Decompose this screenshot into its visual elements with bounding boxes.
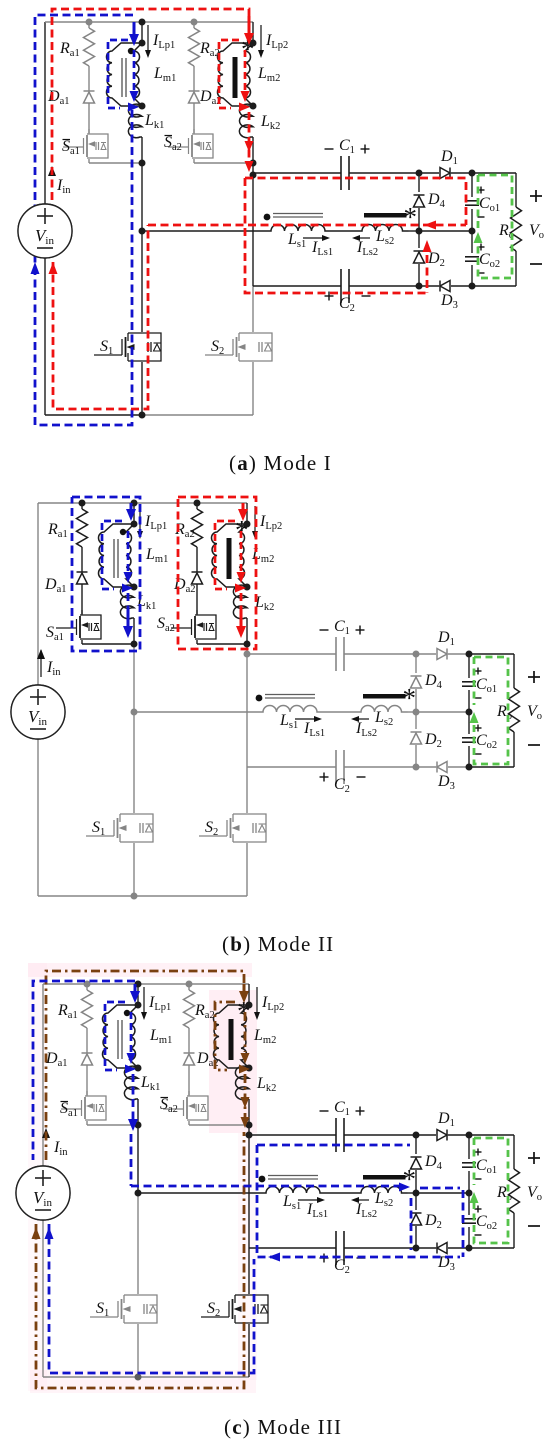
wire top rail (mode a) bbox=[45, 21, 253, 23]
label C_o1 (mode c) bbox=[475, 1151, 482, 1153]
loop red inner winding (mode b) bbox=[215, 521, 235, 589]
node dot (mode c) bbox=[413, 1132, 420, 1139]
inductor L_s1 (mode c) bbox=[260, 1187, 326, 1194]
inductor L_k1 (mode a) bbox=[128, 104, 142, 138]
capacitor C_2 (mode c) bbox=[335, 1231, 337, 1265]
capacitor C_2 (mode b) bbox=[335, 750, 337, 784]
node dot (mode b) bbox=[194, 500, 201, 507]
node dot (mode a) bbox=[469, 283, 476, 290]
node dot (mode a) bbox=[250, 103, 257, 110]
node dot (mode b) bbox=[466, 764, 473, 771]
wire branch2 column (mode b) bbox=[246, 618, 248, 644]
loop red clamp box (mode b) bbox=[178, 497, 256, 649]
node dot (mode c) bbox=[413, 1245, 420, 1252]
capacitor C_o1 (mode a) bbox=[465, 200, 479, 202]
node dot (mode a) bbox=[416, 228, 423, 235]
loop blue outer (mode c) bbox=[33, 981, 135, 1160]
label C_o1 (mode b) bbox=[475, 670, 482, 672]
node dot (mode a) bbox=[139, 228, 146, 235]
inductor L_m2 (mode c) bbox=[213, 1005, 249, 1068]
current I_Ls1 (mode c) bbox=[298, 1199, 320, 1201]
current I_Ls1 (mode a) bbox=[303, 237, 325, 239]
node dot (mode c) bbox=[135, 1190, 142, 1197]
loop blue bottom arrow (mode c) bbox=[268, 1253, 280, 1262]
node dot (mode c) bbox=[135, 1122, 142, 1129]
node dot (mode c) bbox=[135, 1374, 142, 1381]
node dot (mode b) bbox=[413, 651, 420, 658]
node dot (mode a) bbox=[191, 19, 198, 26]
wire C2 rail (mode a) bbox=[253, 285, 341, 287]
wire mid rail (mode a) bbox=[142, 230, 265, 232]
wire branch1 mid (mode b) bbox=[133, 618, 135, 644]
svg-text:(b) Mode II: (b) Mode II bbox=[222, 932, 334, 956]
highlight pink bottom strip (mode c) bbox=[30, 1370, 256, 1393]
label output plus (mode c) bbox=[528, 1157, 540, 1159]
node dot (mode c) bbox=[246, 1122, 253, 1129]
loop blue mid rail (mode c) bbox=[131, 1185, 404, 1188]
node dot (mode b) bbox=[131, 641, 138, 648]
transistor S_a1 (mode a) bbox=[88, 129, 90, 134]
source V_in cover (mode a) bbox=[18, 204, 72, 258]
diode D_1 (mode b) bbox=[437, 649, 447, 660]
wire output column (mode c) bbox=[468, 1135, 470, 1159]
node dot (mode c) bbox=[246, 1132, 253, 1139]
inductor L_s1 (mode a) bbox=[265, 225, 331, 231]
diode D_2 (mode c) bbox=[411, 1214, 422, 1225]
wire top rail (mode c) bbox=[43, 983, 249, 985]
loop green output (mode b) bbox=[474, 657, 508, 764]
transistor S_2 (mode c) bbox=[235, 1294, 249, 1296]
loop blue inner arrows (mode b) bbox=[124, 572, 133, 583]
node dot (mode a) bbox=[139, 40, 146, 47]
node dot (mode b) bbox=[413, 709, 420, 716]
node dot (mode b) bbox=[244, 641, 251, 648]
label C_o2 (mode b) bbox=[475, 727, 482, 729]
diode D_a2 (mode c) bbox=[188, 1028, 190, 1053]
source V_in (mode a) bbox=[18, 204, 72, 258]
loop brown inner winding (mode c) bbox=[215, 1002, 235, 1070]
label S_a1 (mode a) bbox=[63, 139, 71, 141]
wire branch2 column (mode c) bbox=[248, 1099, 250, 1125]
loop brown arrow up left (mode c) bbox=[32, 1227, 41, 1239]
inductor L_m1 (mode a) bbox=[106, 43, 142, 106]
capacitor C_o1 (mode b) bbox=[462, 681, 476, 683]
loop red mid arrow (mode a) bbox=[424, 221, 436, 230]
loop red arrow up left (mode a) bbox=[49, 262, 58, 274]
node dot (mode c) bbox=[246, 1002, 253, 1009]
current I_Ls2 (mode b) bbox=[356, 718, 369, 720]
highlight pink branch2 block (mode c) bbox=[209, 990, 257, 1133]
wire output column (mode b) bbox=[468, 654, 470, 678]
node dot (mode b) bbox=[244, 521, 251, 528]
inductor L_k2 (mode a) bbox=[239, 104, 253, 138]
node dot (mode a) bbox=[469, 228, 476, 235]
resistor R_a1 (mode a) bbox=[88, 22, 90, 28]
resistor R_a1 (mode c) bbox=[86, 984, 88, 990]
inductor L_m1 (mode b) bbox=[98, 524, 134, 587]
transistor S_2 (mode a) bbox=[239, 332, 253, 334]
current I_Lp1 (mode c) bbox=[143, 987, 145, 1014]
inductor L_s2 (mode c) bbox=[355, 1187, 408, 1194]
node dot (mode c) bbox=[135, 1065, 142, 1072]
capacitor C_2 (mode a) bbox=[340, 269, 342, 303]
loop red branch2 down (mode a) bbox=[248, 112, 251, 168]
wire input left vertical (mode b) bbox=[37, 503, 39, 685]
node dot (mode b) bbox=[466, 651, 473, 658]
transistor S_a2 (mode b) bbox=[196, 610, 198, 615]
diode D_4 (mode b) bbox=[411, 677, 422, 688]
current I_in (mode b) bbox=[37, 649, 45, 659]
label C_o2 (mode a) bbox=[478, 246, 485, 248]
label output minus (mode a) bbox=[530, 263, 542, 265]
loop blue inner winding (mode a) bbox=[108, 40, 128, 108]
node dot (mode a) bbox=[139, 160, 146, 167]
loop blue arrow up left (mode c) bbox=[45, 1227, 54, 1239]
wire branch1 mid (mode c) bbox=[137, 1099, 139, 1125]
loop blue enter arrow (mode b) bbox=[130, 503, 133, 512]
loop brown Lk arrows (mode c) bbox=[244, 1074, 247, 1125]
transistor S_a1 (mode b) bbox=[81, 610, 83, 615]
node dot (mode b) bbox=[131, 709, 138, 716]
loop brown outer (mode c) bbox=[46, 971, 244, 1160]
wire diode column (mode b) bbox=[415, 654, 417, 673]
wire output column (mode a) bbox=[471, 173, 473, 197]
node dot (mode c) bbox=[413, 1190, 420, 1197]
wire branch2 drop (mode a) bbox=[252, 22, 254, 43]
loop blue inner arrows (mode a) bbox=[130, 91, 139, 102]
current I_Lp1 (mode a) bbox=[147, 25, 149, 52]
node dot (mode c) bbox=[135, 1002, 142, 1009]
node dot (mode c) bbox=[466, 1132, 473, 1139]
resistor R_a2 (mode a) bbox=[193, 22, 195, 28]
inductor L_k2 (mode c) bbox=[235, 1066, 249, 1100]
transistor S_1 (mode c) bbox=[124, 1294, 138, 1296]
label output plus (mode b) bbox=[528, 676, 540, 678]
wire mid rail (mode c) bbox=[138, 1192, 260, 1194]
loop blue enter arrow (mode a) bbox=[133, 22, 136, 37]
node dot (mode b) bbox=[466, 709, 473, 716]
wire load loop (mode c) bbox=[469, 1134, 514, 1136]
diode D_a1 (mode c) bbox=[86, 1028, 88, 1053]
inductor L_s2 (mode a) bbox=[356, 225, 409, 231]
loop blue inner winding (mode b) bbox=[102, 521, 122, 589]
wire bottom rail (mode a) bbox=[45, 414, 142, 416]
label C_1 (mode a) bbox=[325, 148, 334, 150]
wire C1 rail (mode b) bbox=[247, 653, 336, 655]
node dot (mode c) bbox=[135, 981, 142, 988]
wire bottom rail (mode b) bbox=[38, 895, 134, 897]
wire branch1 drop (mode b) bbox=[133, 503, 135, 524]
diode D_a2 (mode b) bbox=[196, 547, 198, 572]
diode D_4 (mode c) bbox=[411, 1158, 422, 1169]
source V_in (mode c) bbox=[16, 1166, 70, 1220]
wire branch2 drop (mode c) bbox=[248, 984, 250, 1005]
node dot (mode c) bbox=[466, 1190, 473, 1197]
resistor R_o (mode a) bbox=[511, 207, 522, 251]
label S_a2 (mode a) bbox=[165, 135, 173, 137]
loop red secondary box (mode a) bbox=[245, 178, 427, 293]
node dot (mode a) bbox=[139, 19, 146, 26]
loop red inner arrows (mode b) bbox=[237, 572, 246, 583]
diode D_1 (mode a) bbox=[440, 168, 450, 179]
wire bottom rail (mode c) bbox=[43, 1376, 138, 1378]
transistor S_a2 (mode a) bbox=[193, 129, 195, 134]
resistor R_a2 (mode b) bbox=[196, 503, 198, 509]
label S_a2 (mode c) bbox=[161, 1097, 169, 1099]
source V_in cover (mode b) bbox=[11, 685, 65, 739]
diode D_1 (mode c) bbox=[437, 1130, 447, 1141]
loop blue inner winding (mode c) bbox=[105, 1002, 125, 1070]
inductor L_s2 (mode b) bbox=[355, 706, 408, 712]
resistor R_o (mode b) bbox=[509, 688, 520, 732]
loop blue clamp box (mode b) bbox=[72, 497, 140, 651]
source V_in cover (mode c) bbox=[16, 1166, 70, 1220]
current I_Ls2 (mode c) bbox=[356, 1199, 369, 1201]
wire C2 rail (mode b) bbox=[247, 766, 336, 768]
node dot (mode a) bbox=[139, 103, 146, 110]
inductor L_s1 (mode b) bbox=[257, 706, 323, 712]
current I_Ls2 (mode a) bbox=[357, 237, 370, 239]
diode D_2 (mode a) bbox=[414, 252, 425, 263]
loop blue Lk arrow (mode b) bbox=[127, 593, 130, 620]
loop blue enter arrow (mode c) bbox=[134, 984, 137, 994]
current I_Lp1 (mode b) bbox=[139, 506, 141, 533]
svg-text:(c) Mode III: (c) Mode III bbox=[224, 1415, 342, 1439]
label C_1 (mode b) bbox=[320, 629, 329, 631]
label output minus (mode b) bbox=[528, 744, 540, 746]
diode D_3 (mode c) bbox=[437, 1243, 447, 1254]
highlight pink left strip (mode c) bbox=[28, 963, 47, 1391]
wire diode column (mode c) bbox=[415, 1135, 417, 1154]
inductor L_m2 (mode b) bbox=[211, 524, 247, 587]
wire branch1 drop (mode a) bbox=[141, 22, 143, 43]
node dot (mode b) bbox=[131, 584, 138, 591]
wire load loop (mode b) bbox=[469, 653, 514, 655]
loop green output (mode c) bbox=[474, 1138, 508, 1243]
node dot (mode c) bbox=[186, 981, 193, 988]
inductor L_k1 (mode b) bbox=[120, 585, 134, 619]
inductor L_m2 (mode a) bbox=[217, 43, 253, 106]
inductor L_k1 (mode c) bbox=[124, 1066, 138, 1100]
source V_in (mode b) bbox=[11, 685, 65, 739]
diode D_a1 (mode a) bbox=[88, 66, 90, 91]
loop brown inner arrows (mode c) bbox=[241, 1053, 250, 1064]
loop blue Lk descent (mode c) bbox=[132, 1074, 135, 1120]
current I_Lp2 (mode c) bbox=[256, 987, 258, 1014]
loop red enter arrow (mode a) bbox=[248, 16, 251, 33]
node dot (mode a) bbox=[416, 283, 423, 290]
capacitor C_o2 (mode c) bbox=[462, 1218, 476, 1220]
node dot (mode a) bbox=[139, 412, 146, 419]
transistor S_2 (mode b) bbox=[233, 813, 247, 815]
current I_in (mode a) bbox=[48, 166, 56, 176]
inductor L_k2 (mode b) bbox=[233, 585, 247, 619]
node dot (mode b) bbox=[79, 500, 86, 507]
label C_2 (mode a) bbox=[325, 295, 334, 297]
current I_Lp2 (mode a) bbox=[260, 25, 262, 52]
capacitor C_1 (mode b) bbox=[335, 637, 337, 671]
diode D_a2 (mode a) bbox=[193, 66, 195, 91]
svg-text:(a) Mode I: (a) Mode I bbox=[229, 451, 332, 475]
wire load loop (mode a) bbox=[472, 172, 516, 174]
wire input left vertical (mode c) bbox=[42, 984, 44, 1166]
diode D_2 (mode b) bbox=[411, 733, 422, 744]
wire branch1 mid (mode a) bbox=[141, 137, 143, 163]
loop red inner winding (mode a) bbox=[219, 40, 239, 108]
wire diode column (mode a) bbox=[418, 173, 420, 192]
diode D_a1 (mode b) bbox=[81, 547, 83, 572]
loop blue secondary box (mode c) bbox=[257, 1144, 410, 1147]
loop red outer (mode a) bbox=[52, 9, 249, 200]
transistor S_1 (mode a) bbox=[128, 332, 142, 334]
wire C1 rail (mode c) bbox=[249, 1134, 336, 1136]
node dot (mode c) bbox=[84, 981, 91, 988]
capacitor C_o1 (mode c) bbox=[462, 1162, 476, 1164]
loop red Lk arrow (mode b) bbox=[240, 593, 243, 620]
loop red inner arrows (mode a) bbox=[241, 91, 250, 102]
transistor S_1 (mode b) bbox=[120, 813, 134, 815]
diode D_3 (mode a) bbox=[440, 281, 450, 292]
loop green output (mode a) bbox=[478, 175, 512, 278]
capacitor C_o2 (mode a) bbox=[465, 256, 479, 258]
inductor L_m1 (mode c) bbox=[102, 1005, 138, 1068]
wire branch2 column (mode a) bbox=[252, 137, 254, 163]
capacitor C_o2 (mode b) bbox=[462, 737, 476, 739]
resistor R_a2 (mode c) bbox=[188, 984, 190, 990]
node dot (mode a) bbox=[250, 40, 257, 47]
node dot (mode b) bbox=[131, 893, 138, 900]
loop red D2 up (mode a) bbox=[426, 255, 429, 293]
node dot (mode a) bbox=[250, 172, 257, 179]
current I_in (mode c) bbox=[42, 1128, 50, 1138]
wire top rail (mode b) bbox=[38, 502, 247, 504]
label output minus (mode c) bbox=[528, 1225, 540, 1227]
label C_2 (mode b) bbox=[320, 776, 329, 778]
loop blue outer (mode a) bbox=[35, 15, 133, 425]
loop brown enter arrow (mode c) bbox=[243, 984, 246, 994]
highlight pink S2 strip (mode c) bbox=[238, 1133, 257, 1380]
wire branch2 drop (mode b) bbox=[246, 503, 248, 524]
svg-text:*: * bbox=[235, 515, 249, 545]
wire C2 rail (mode c) bbox=[249, 1247, 336, 1249]
current I_Ls1 (mode b) bbox=[295, 718, 317, 720]
node dot (mode b) bbox=[413, 764, 420, 771]
loop blue inner arrows (mode c) bbox=[127, 1053, 136, 1064]
label output plus (mode a) bbox=[530, 195, 542, 197]
label C_o2 (mode c) bbox=[475, 1208, 482, 1210]
node dot (mode b) bbox=[244, 584, 251, 591]
current I_Lp2 (mode b) bbox=[254, 506, 256, 533]
wire branch1 drop (mode c) bbox=[137, 984, 139, 1005]
loop blue arrow up left (mode a) bbox=[31, 262, 40, 274]
capacitor C_1 (mode c) bbox=[335, 1118, 337, 1152]
node dot (mode c) bbox=[246, 1065, 253, 1072]
node dot (mode a) bbox=[416, 170, 423, 177]
wire input left vertical (mode a) bbox=[44, 22, 46, 204]
node dot (mode b) bbox=[244, 651, 251, 658]
highlight pink band top (mode c) bbox=[28, 963, 252, 977]
capacitor C_1 (mode a) bbox=[340, 156, 342, 190]
node dot (mode b) bbox=[131, 500, 138, 507]
label C_2 (mode c) bbox=[320, 1257, 329, 1259]
loop blue D2 down (mode c) bbox=[410, 1198, 413, 1250]
wire mid rail (mode b) bbox=[134, 711, 257, 713]
node dot (mode b) bbox=[131, 521, 138, 528]
label C_o1 (mode a) bbox=[478, 189, 485, 191]
loop red enter arrow (mode b) bbox=[242, 503, 245, 512]
node dot (mode a) bbox=[469, 170, 476, 177]
diode D_4 (mode a) bbox=[414, 196, 425, 207]
wire C1 rail (mode a) bbox=[253, 172, 341, 174]
resistor R_a1 (mode b) bbox=[81, 503, 83, 509]
label C_1 (mode c) bbox=[320, 1110, 329, 1112]
node dot (mode c) bbox=[466, 1245, 473, 1252]
node dot (mode a) bbox=[86, 19, 93, 26]
resistor R_o (mode c) bbox=[509, 1169, 520, 1213]
diode D_3 (mode b) bbox=[437, 762, 447, 773]
node dot (mode a) bbox=[250, 160, 257, 167]
label S_a1 (mode c) bbox=[61, 1101, 69, 1103]
transistor S_a1 (mode c) bbox=[86, 1091, 88, 1096]
transistor S_a2 (mode c) bbox=[188, 1091, 190, 1096]
